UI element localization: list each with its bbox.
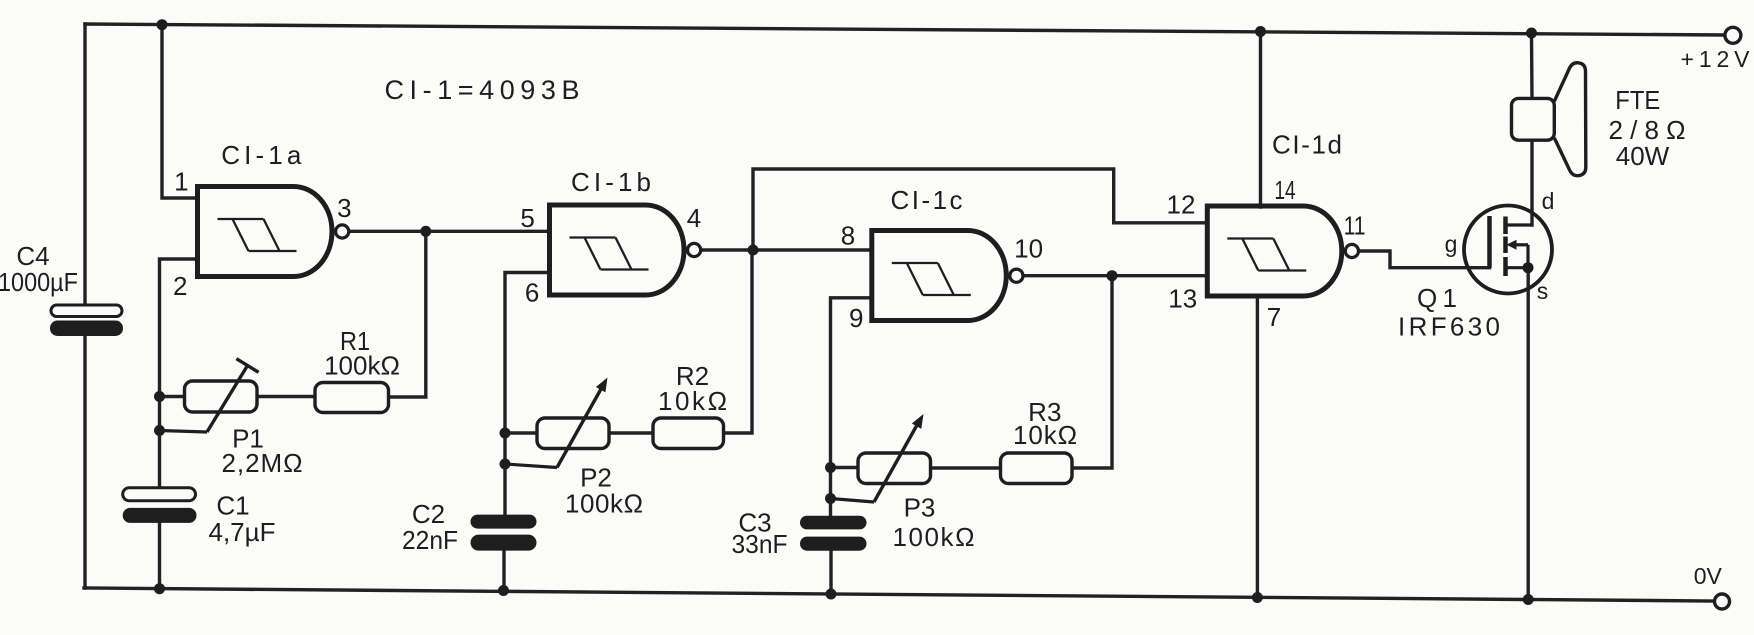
junction dot bottom rail C1 branch: [154, 583, 165, 594]
junction dot P3 wiper node: [825, 493, 836, 504]
resistor R3: [1001, 453, 1073, 484]
junction dot bottom rail source: [1523, 594, 1534, 605]
potentiometer P1: [160, 359, 259, 432]
wire pin 11 output to MOSFET gate: [1359, 251, 1489, 268]
junction dot bottom rail pin7: [1252, 592, 1263, 603]
svg-text:33nF: 33nF: [732, 529, 788, 559]
capacitor C1: [123, 488, 197, 523]
junction dot top rail speaker feed: [1526, 28, 1537, 39]
svg-text:12: 12: [1167, 190, 1196, 220]
svg-text:6: 6: [525, 278, 539, 308]
svg-text:CI-1a: CI-1a: [221, 140, 302, 170]
wire P1 to R1: [257, 395, 315, 398]
svg-text:3: 3: [337, 193, 351, 223]
svg-text:4: 4: [687, 203, 701, 233]
svg-text:Q1: Q1: [1417, 283, 1457, 313]
svg-text:1000µF: 1000µF: [0, 267, 78, 297]
junction dot P1 left node: [154, 391, 165, 402]
junction dot P2 wiper node: [500, 459, 511, 470]
svg-text:FTE: FTE: [1615, 85, 1660, 115]
wire bottom 0V rail: [84, 588, 1715, 601]
wire pin 7 to bottom rail: [1256, 297, 1259, 598]
wire pin 14 to top rail: [1259, 32, 1262, 208]
junction dot bottom rail C3 branch: [826, 589, 837, 600]
svg-text:22nF: 22nF: [402, 525, 458, 555]
svg-text:10kΩ: 10kΩ: [1013, 420, 1077, 450]
junction dot pin4 node: [748, 245, 759, 256]
wire pin 2 / C1 branch: [160, 259, 198, 589]
wire pin 10 output to pin 13: [1024, 274, 1207, 277]
svg-text:10: 10: [1014, 234, 1043, 264]
capacitor C2: [471, 515, 537, 551]
svg-text:100kΩ: 100kΩ: [893, 522, 975, 552]
svg-text:CI-1b: CI-1b: [571, 167, 651, 197]
terminal +12V: [1725, 27, 1741, 43]
wire pin 9 / C3 branch: [831, 298, 872, 594]
svg-text:14: 14: [1275, 175, 1296, 205]
terminal 0V: [1715, 594, 1730, 609]
svg-text:7: 7: [1267, 302, 1281, 332]
wire source to bottom rail: [1526, 268, 1529, 600]
svg-text:11: 11: [1344, 211, 1366, 241]
svg-text:100kΩ: 100kΩ: [565, 489, 643, 519]
capacitor C4: [50, 305, 123, 336]
junction dot pin3 node: [420, 226, 431, 237]
svg-text:CI-1c: CI-1c: [891, 185, 963, 215]
nand gate CI-1b: [550, 205, 701, 295]
speaker FTE: [1512, 63, 1586, 176]
svg-text:9: 9: [849, 303, 863, 333]
wire P3 left terminal: [831, 466, 859, 469]
wire pin 1 of CI-1a: [162, 25, 198, 198]
svg-text:d: d: [1542, 188, 1555, 214]
nand gate CI-1c: [872, 231, 1023, 321]
svg-text:P3: P3: [904, 493, 936, 523]
svg-text:0V: 0V: [1694, 563, 1723, 589]
svg-text:2,2MΩ: 2,2MΩ: [222, 448, 303, 478]
resistor R2: [653, 418, 724, 449]
potentiometer P3: [831, 414, 931, 502]
wire pin 4 output to pin 8: [702, 248, 872, 251]
junction dot top rail pin1 feed: [157, 19, 168, 30]
junction dot P3 left node: [825, 462, 836, 473]
wire feedback pin4 node to pin 12: [753, 169, 1207, 250]
wire pin 3 output to pin 5: [350, 230, 550, 233]
svg-text:8: 8: [841, 221, 855, 251]
nand gate CI-1a: [198, 187, 349, 277]
junction dot top rail pin14 feed: [1255, 26, 1266, 37]
wire top +12V rail: [85, 24, 1724, 35]
svg-text:1: 1: [174, 167, 188, 197]
nand gate CI-1d: [1207, 206, 1358, 296]
wire R2 right up to node pin4: [724, 250, 753, 433]
wire P1 left terminal: [160, 395, 185, 398]
wire left rail C4 branch: [83, 24, 86, 588]
svg-text:40W: 40W: [1616, 141, 1670, 171]
resistor R1: [315, 383, 389, 413]
junction dot P2 left node: [500, 428, 511, 439]
svg-text:2: 2: [173, 271, 187, 301]
wire P3 to R3: [931, 466, 1001, 469]
svg-text:CI-1d: CI-1d: [1272, 130, 1342, 160]
wire R1 right up to node pin3: [389, 231, 426, 397]
wire P2 to R2: [609, 431, 653, 434]
svg-text:g: g: [1445, 231, 1458, 257]
transistor Q1 MOSFET: [1464, 206, 1552, 294]
junction dot P1 wiper node: [154, 425, 165, 436]
capacitor C3: [800, 516, 867, 551]
svg-text:CI-1=4093B: CI-1=4093B: [385, 75, 580, 105]
wire pin 6 / C2 branch: [504, 273, 550, 591]
svg-text:C1: C1: [216, 491, 249, 521]
wire speaker to drain: [1530, 140, 1533, 225]
potentiometer P2: [505, 378, 609, 468]
wire P2 left terminal: [505, 431, 537, 434]
svg-text:IRF630: IRF630: [1398, 312, 1500, 342]
junction dot pin10 node: [1107, 270, 1118, 281]
junction dot bottom rail C2 branch: [498, 585, 509, 596]
svg-text:5: 5: [520, 203, 534, 233]
wire R3 right up to node pin10: [1072, 276, 1112, 468]
svg-text:13: 13: [1168, 284, 1197, 314]
svg-text:s: s: [1537, 278, 1549, 304]
wire speaker to top rail: [1530, 33, 1534, 99]
svg-text:100kΩ: 100kΩ: [324, 351, 400, 381]
svg-text:10kΩ: 10kΩ: [658, 386, 727, 416]
svg-text:4,7µF: 4,7µF: [208, 517, 275, 547]
